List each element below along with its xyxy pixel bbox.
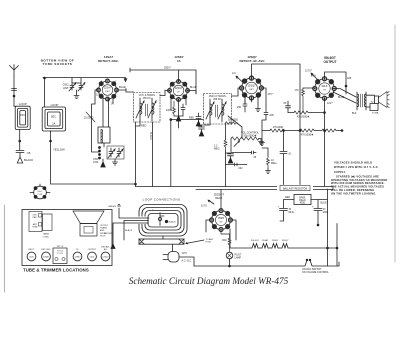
cap on AVC rail (226, 153, 234, 163)
svg-text:THE ACTUAL MEASURED VOLTAGES: THE ACTUAL MEASURED VOLTAGES (331, 185, 384, 189)
wire field left RED (284, 196, 295, 208)
cap below V2 (174, 104, 185, 121)
header text: BOTTOM VIEW OF TUBE SOCKETS (41, 58, 75, 66)
tube location RECT (27, 249, 36, 261)
IF transformer T1 (dashed box) (134, 93, 161, 123)
gang condenser detail box (29, 212, 42, 232)
svg-text:A.C.-D.C.: A.C.-D.C. (182, 260, 193, 263)
svg-text:SUPPLY.: SUPPLY. (334, 170, 346, 174)
gang condenser circle (30, 184, 50, 199)
svg-text:RECT.: RECT. (28, 249, 34, 251)
pilot lamp (226, 252, 242, 266)
svg-text:117V.*: 117V.* (305, 70, 312, 73)
svg-text:Schematic Circuit Diagram M: Schematic Circuit Diagram Model WR-475 (129, 276, 289, 286)
cap below V3 (237, 100, 247, 112)
node junction on rail (44, 77, 46, 79)
wire lamp into bottom (229, 265, 231, 267)
label 12SK7 IF (174, 55, 184, 63)
scan border left (4, 205, 6, 292)
V2 grid cap wire (130, 67, 179, 82)
V4 cathode wire down to bus (324, 98, 333, 187)
V4 plate wires to output transformer (333, 89, 356, 104)
svg-text:TRIM.: TRIM. (32, 227, 38, 229)
svg-text:ANT.: ANT. (63, 86, 69, 90)
V3 pin wires (238, 88, 273, 105)
ground below osc section (101, 159, 118, 167)
svg-text:RED: RED (141, 125, 146, 128)
svg-text:35Z5: 35Z5 (29, 257, 34, 259)
gang cond second box (43, 214, 53, 238)
V5 side wires (206, 220, 236, 240)
wire (258, 247, 262, 249)
tube location DET-OSC (41, 249, 51, 261)
power plug (163, 252, 194, 267)
wire bus to V5 (201, 190, 221, 212)
svg-text:BLACK: BLACK (24, 158, 33, 162)
cap to ground left of rail (199, 125, 205, 136)
svg-text:.01: .01 (288, 153, 292, 156)
svg-text:COIL: COIL (93, 161, 99, 164)
svg-text:LAMP: LAMP (235, 257, 242, 260)
svg-text:COIL: COIL (37, 194, 43, 196)
svg-text:RED: RED (285, 196, 290, 199)
svg-text:DET: DET (249, 89, 254, 91)
IF transformer T2 (dashed box) (204, 94, 232, 125)
svg-text:+: + (312, 206, 314, 209)
cap .05 on 425k row (283, 101, 291, 113)
svg-text:170: 170 (295, 89, 300, 92)
wire (268, 247, 272, 249)
wire T2 secondary to diagonal (202, 116, 243, 139)
svg-text:TUBE SOCKETS: TUBE SOCKETS (43, 62, 73, 66)
svg-text:470,000Ω✱: 470,000Ω✱ (301, 133, 313, 136)
tube V1 12SA7 socket (96, 79, 119, 102)
wire V2 screen row (170, 117, 203, 121)
svg-text:BLK: BLK (352, 112, 357, 115)
svg-text:POST: POST (206, 242, 213, 244)
svg-text:.05: .05 (253, 157, 257, 159)
svg-text:12SQ7: 12SQ7 (282, 240, 290, 242)
B minus bus line (136, 186, 334, 188)
ballast line (196, 187, 333, 190)
svg-text:RED: RED (189, 117, 194, 120)
svg-text:.006: .006 (269, 114, 274, 117)
svg-text:BLUE: BLUE (119, 85, 126, 89)
svg-text:WITH 600 OHM SERIES RESISTANCE: WITH 600 OHM SERIES RESISTANCE. (331, 181, 385, 185)
resistor third under V4 (322, 129, 343, 132)
svg-text:YELLOW: YELLOW (53, 148, 65, 152)
wire (278, 247, 282, 249)
svg-text:GT: GT (219, 221, 223, 223)
svg-text:12SQ7: 12SQ7 (247, 84, 256, 88)
svg-text:OSC.: OSC. (37, 191, 43, 193)
V4 left pin resistor (295, 75, 317, 113)
svg-text:12SA7: 12SA7 (262, 239, 269, 242)
svg-text:ON VOLUME CONTROL: ON VOLUME CONTROL (302, 271, 329, 274)
svg-text:MEG.: MEG. (214, 148, 220, 151)
svg-text:3Ω: 3Ω (371, 101, 374, 103)
loop primary box (15, 102, 30, 129)
AVC resistor horizontal (226, 120, 239, 125)
speaker field coil box (294, 195, 311, 205)
svg-text:12V.*: 12V.* (96, 93, 102, 97)
svg-text:PAD.: PAD. (33, 216, 38, 219)
voltage note text block (331, 161, 388, 196)
grid resistor below V1 (103, 101, 115, 127)
svg-text:T2 C5: T2 C5 (57, 253, 63, 255)
svg-text:50L6GT: 50L6GT (251, 240, 260, 242)
svg-text:OUTPUT: OUTPUT (323, 60, 336, 64)
svg-text:DETECT.-AF.-AVC: DETECT.-AF.-AVC (239, 59, 265, 63)
svg-text:ON THE VOLTMETER LOADING.: ON THE VOLTMETER LOADING. (331, 191, 377, 195)
wire V2 plate to T2 (179, 70, 197, 94)
svg-text:A.F.: A.F. (104, 248, 108, 251)
svg-text:DETECT.-OSC.: DETECT.-OSC. (98, 59, 119, 63)
osc trimmer pair (107, 146, 124, 159)
wire V1 plate to T1 (126, 89, 134, 93)
svg-text:470,000Ω: 470,000Ω (273, 126, 284, 129)
svg-text:SPKR.: SPKR. (299, 197, 306, 199)
svg-text:BLACK: BLACK (149, 132, 152, 140)
svg-text:TUBE & TRIMMER LOCATIONS: TUBE & TRIMMER LOCATIONS (23, 268, 89, 273)
svg-text:WILL BE LOWER, DEPENDING: WILL BE LOWER, DEPENDING (331, 188, 374, 192)
loop lead wires (104, 205, 149, 249)
svg-text:I.F.: I.F. (177, 59, 181, 63)
wires T1 down to bus (135, 122, 153, 187)
svg-text:250: 250 (237, 106, 242, 109)
filament 12SK7 (272, 240, 279, 248)
svg-text:250V.*: 250V.* (164, 67, 171, 70)
svg-text:12SQ7: 12SQ7 (102, 257, 109, 259)
svg-text:AND: AND (100, 229, 105, 232)
wire T2 to V3 diode (232, 93, 239, 96)
wire loop sec to AVC bus (50, 131, 136, 184)
svg-text:PRI.: PRI. (20, 114, 25, 117)
svg-text:COND.: COND. (43, 236, 50, 238)
svg-text:GANG: GANG (43, 233, 50, 236)
svg-text:BALLAST RESISTOR: BALLAST RESISTOR (283, 188, 308, 191)
label 50L6GT OUTPUT (323, 56, 336, 64)
svg-text:456 KC.: 456 KC. (213, 98, 222, 101)
tuning arrows (206, 102, 214, 119)
tube V3 12SQ7 socket (239, 75, 264, 100)
svg-text:OUTPUT: OUTPUT (88, 249, 97, 251)
wire top rail to tube1 (43, 78, 127, 82)
svg-text:TO ANT.: TO ANT. (206, 238, 215, 241)
svg-text:117V.: 117V. (182, 252, 188, 255)
electrolytic cap 20MFD (312, 206, 329, 226)
resistor 500k second (300, 129, 322, 136)
loop antenna nested rounded rects (138, 205, 187, 237)
output transformer (352, 92, 366, 115)
loop mounting bar (139, 236, 214, 252)
svg-text:500,000Ω: 500,000Ω (228, 120, 238, 122)
svg-text:117V.: 117V. (201, 205, 207, 208)
svg-text:GREEN: GREEN (108, 206, 116, 208)
svg-text:MFD.: MFD. (289, 212, 295, 214)
label 12SQ7 DETECT-AF-AVC (239, 55, 265, 63)
svg-text:12SK7: 12SK7 (272, 240, 279, 242)
resistor below V2 (166, 101, 175, 116)
resistor under V5 (221, 229, 231, 252)
svg-text:TRANS.: TRANS. (100, 227, 108, 230)
svg-text:LOOP CONNECTIONS: LOOP CONNECTIONS (143, 198, 181, 202)
tube V5 35Z5 rectifier socket (209, 208, 233, 232)
svg-text:.05: .05 (27, 151, 31, 155)
svg-text:+: + (278, 206, 280, 209)
svg-text:TO C2: TO C2 (57, 251, 64, 253)
loop inner terminals (152, 210, 176, 226)
filament 12SA7 (262, 239, 269, 248)
cap C4 with ground (196, 113, 201, 126)
resistor R network 470k (262, 126, 301, 132)
resistor 2.2meg vertical (262, 148, 277, 174)
filament string wire (230, 229, 252, 248)
svg-text:A.F.: A.F. (232, 72, 237, 75)
wire T1 secondary to V2 (160, 90, 165, 96)
svg-text:12SA7: 12SA7 (43, 256, 50, 259)
secondary coil (222, 104, 224, 118)
svg-text:425: 425 (347, 77, 352, 80)
svg-text:450Ω: 450Ω (300, 203, 306, 205)
right rail down (328, 202, 338, 266)
svg-text:50L6: 50L6 (90, 257, 95, 259)
wire v1 22k branch (84, 104, 99, 152)
svg-text:12SA7: 12SA7 (104, 86, 112, 90)
tube location OUTPUT (88, 249, 97, 261)
trimmer capacitor OSC (63, 83, 76, 92)
wire loop sec drop (44, 78, 46, 107)
svg-text:STARRED (✱) VOLTAGES ARE: STARRED (✱) VOLTAGES ARE (336, 174, 379, 178)
V1 pin wires (95, 85, 126, 104)
svg-text:VOLTAGES SHOULD HOLD: VOLTAGES SHOULD HOLD (334, 161, 372, 165)
wire 470k junction down to bus (283, 131, 285, 152)
svg-text:8.5V.: 8.5V. (311, 75, 317, 78)
svg-text:OPERATING VOLTAGES AS MEASURED: OPERATING VOLTAGES AS MEASURED (331, 178, 388, 182)
IF trimmer rect (53, 246, 67, 264)
wire V2 cathode rail to bus (170, 120, 172, 187)
tube V2 12SK7 socket (167, 79, 190, 102)
svg-text:DET.OSC.: DET.OSC. (41, 249, 51, 251)
V4 top wires (305, 70, 352, 95)
V2 pin wires down (165, 86, 197, 128)
scan border right (394, 25, 396, 262)
primary coil (140, 103, 142, 117)
svg-text:100Ω: 100Ω (166, 109, 172, 112)
filament 12SQ7 (282, 240, 290, 248)
capacitor .05 (16, 151, 31, 158)
wire field right BLUE (311, 189, 328, 208)
capacitor on antenna lead (12, 89, 17, 97)
svg-text:35Z5: 35Z5 (218, 216, 224, 220)
ground arrow black lead (17, 157, 33, 163)
ground V3 (256, 104, 261, 112)
cap at 283 (280, 152, 292, 187)
svg-text:BLUE: BLUE (338, 96, 345, 99)
svg-text:I.F.: I.F. (76, 249, 79, 251)
svg-text:BLUE: BLUE (321, 202, 328, 205)
rectifier label 35Z5GT RECT (214, 193, 225, 200)
tube &amp; trimmer locations box (22, 210, 112, 266)
secondary coil (152, 103, 154, 117)
svg-text:425,000Ω✱: 425,000Ω✱ (297, 115, 309, 118)
speaker cone in location box (73, 211, 109, 237)
resistor 425k row below V4 (288, 111, 325, 118)
svg-text:SEC.: SEC. (51, 116, 57, 119)
bottom return wire with switch (194, 259, 339, 274)
tube location DET-AVC (101, 246, 110, 261)
svg-text:MFD.: MFD. (323, 212, 329, 214)
svg-text:456 KC.: 456 KC. (143, 97, 152, 100)
svg-text:FIELD: FIELD (299, 200, 306, 202)
speaker (366, 92, 389, 115)
oscillator terminal dots (99, 147, 101, 160)
svg-text:50L6: 50L6 (322, 84, 328, 88)
svg-text:DET: DET (105, 91, 110, 93)
ground below trimmers (74, 90, 79, 99)
svg-text:.05: .05 (283, 102, 287, 105)
wire from loop pri down (19, 130, 21, 151)
antenna (10, 65, 19, 107)
svg-text:LOOP: LOOP (51, 103, 59, 107)
svg-text:12V.*: 12V.* (327, 102, 333, 105)
loop secondary box (42, 103, 65, 131)
svg-text:20: 20 (323, 209, 326, 211)
filament 50L6GT (251, 240, 260, 248)
svg-text:2A: 2A (52, 123, 55, 126)
svg-text:.002: .002 (238, 168, 243, 170)
svg-text:RECT.: RECT. (215, 196, 223, 200)
primary coil (210, 104, 212, 118)
svg-text:BLACK: BLACK (125, 229, 133, 232)
svg-text:I.F.: I.F. (177, 91, 180, 93)
svg-text:BLACK: BLACK (169, 221, 177, 224)
svg-text:MEG.: MEG. (271, 162, 277, 165)
wire red lead (136, 121, 147, 128)
trimmer capacitor ANT (72, 78, 85, 91)
label 12SA7 DETECT-OSC (98, 55, 119, 63)
volume control potentiometer (226, 132, 264, 170)
electrolytic cap 30MFD (278, 206, 295, 219)
svg-text:1: 1 (115, 81, 117, 83)
wire caps common (280, 218, 284, 221)
tube V4 50L6GT socket (312, 76, 337, 101)
osc coil box (93, 127, 110, 164)
tube location IF (73, 249, 82, 261)
svg-text:12SK7: 12SK7 (74, 257, 81, 259)
svg-text:47V.*: 47V.* (268, 93, 274, 96)
wire filament to right rail (288, 247, 337, 249)
svg-text:30: 30 (289, 209, 292, 211)
svg-text:30 MA.: 30 MA. (372, 112, 379, 115)
svg-text:PLUG: PLUG (100, 235, 106, 237)
AVC rail down to bus (214, 123, 227, 187)
svg-text:30Ω: 30Ω (222, 239, 227, 242)
tuning arrows (136, 101, 144, 118)
svg-text:LOOP: LOOP (19, 102, 27, 106)
ballast resistor label (277, 185, 313, 191)
svg-text:0V.: 0V. (111, 103, 115, 106)
svg-text:GT: GT (323, 89, 327, 91)
V3 top wire to AF plate rail (232, 64, 301, 131)
svg-text:12SK7: 12SK7 (175, 86, 183, 90)
svg-text:WITHIN ± 20% WITH 117 V. A.C.: WITHIN ± 20% WITH 117 V. A.C. (334, 165, 379, 169)
coupling cap to V4 grid (260, 105, 275, 146)
wire 500k junction down to bus (299, 131, 301, 187)
